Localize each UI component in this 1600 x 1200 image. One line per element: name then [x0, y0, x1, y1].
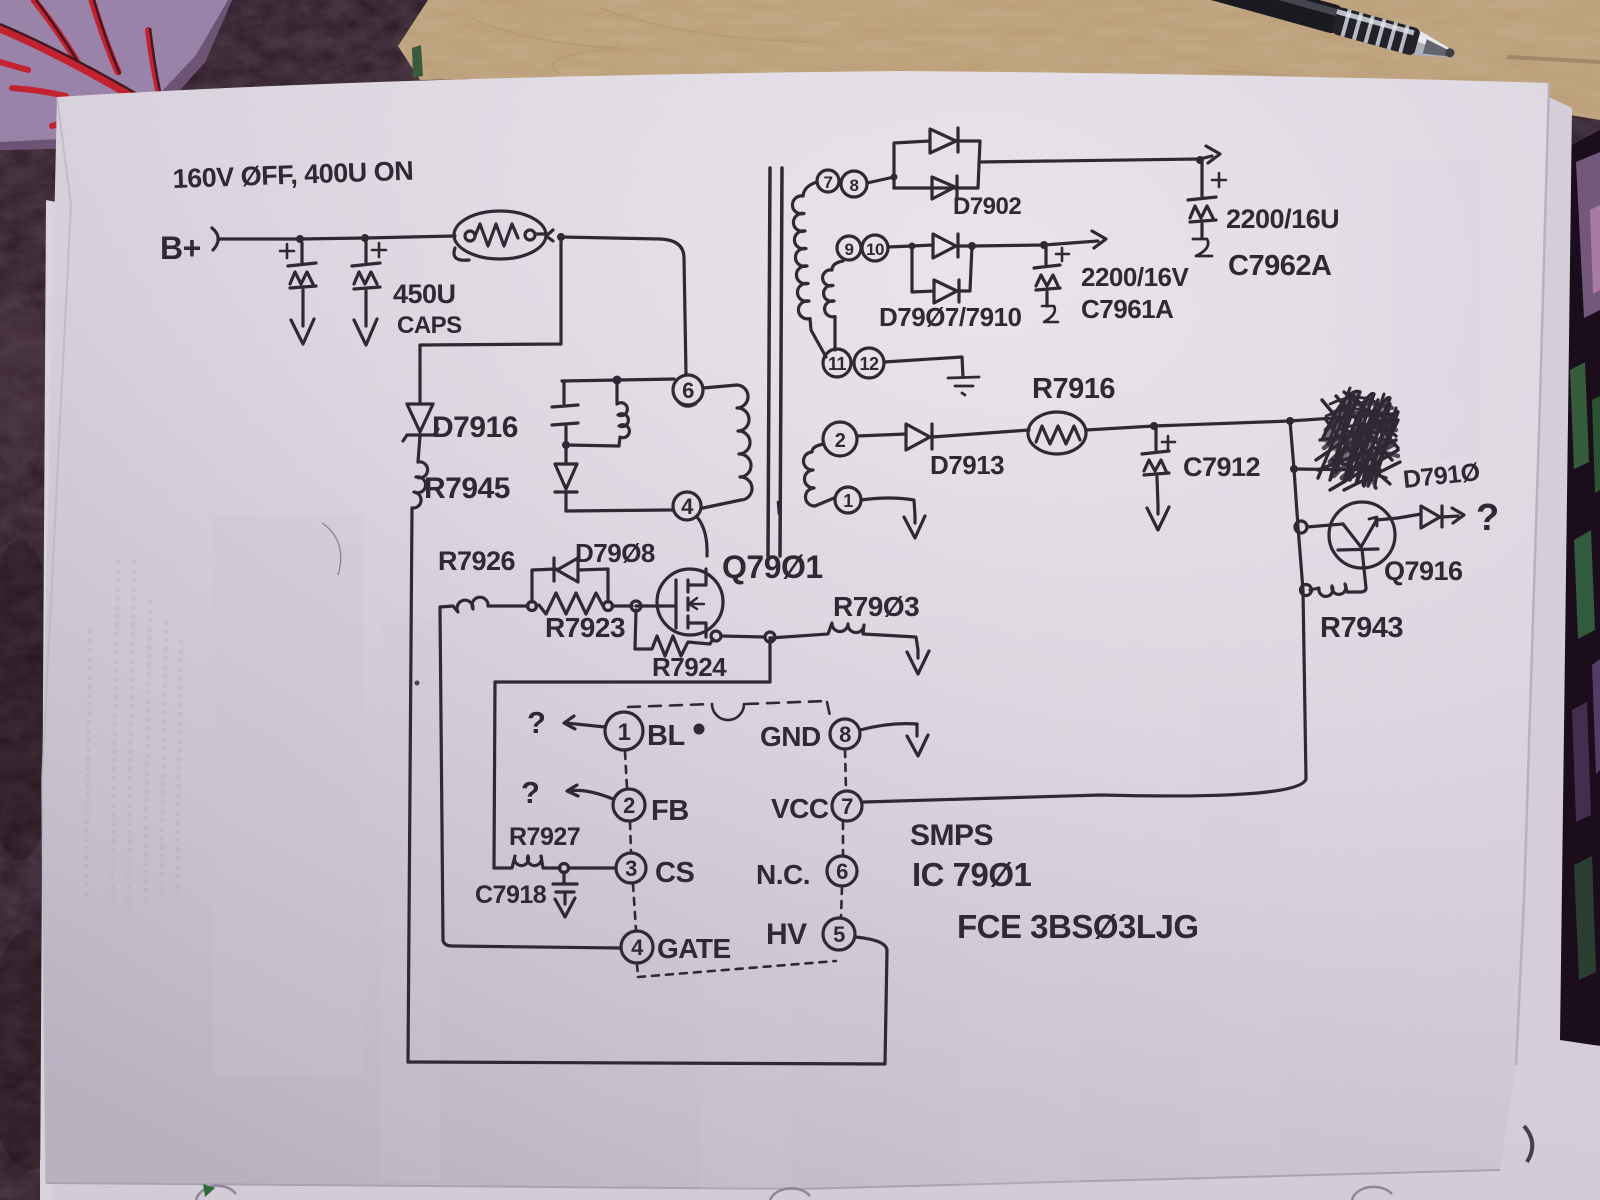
ground pin1 [904, 516, 925, 538]
arrow FB query [567, 785, 613, 799]
IC dashed pin links right [841, 750, 846, 917]
stray ink dot [415, 681, 420, 686]
primary winding [703, 385, 752, 508]
svg-text:FCE 3BSØ3LJG: FCE 3BSØ3LJG [957, 908, 1199, 945]
wire B+ rail [218, 236, 455, 239]
wire GND pin to ground [860, 724, 917, 730]
capacitor 450V cap2 [352, 242, 386, 345]
svg-text:VCC: VCC [771, 793, 829, 824]
wire scribble mid rail [1292, 469, 1390, 484]
svg-text:C7961A: C7961A [1081, 294, 1174, 324]
svg-text:1: 1 [618, 719, 631, 746]
wire pin1 to ground [861, 498, 915, 516]
svg-text:?: ? [521, 775, 539, 810]
IC notch [712, 704, 744, 720]
svg-text:C7912: C7912 [1183, 452, 1260, 482]
ground pins 11 12 [948, 377, 979, 395]
IC dashed outline top [628, 701, 830, 716]
wire to transformer pin6 [561, 237, 686, 374]
IC dot mark [694, 724, 705, 735]
wire D7907 output rail [972, 241, 1098, 246]
svg-text:R7916: R7916 [1032, 373, 1115, 405]
secondary winding lower [803, 444, 834, 506]
capacitor 450V cap1 [280, 243, 316, 344]
bottom edge marks of under-sheet [196, 1186, 1392, 1200]
junction gate (open) [631, 601, 641, 611]
svg-text:R7943: R7943 [1320, 612, 1403, 644]
junction snubber top [613, 376, 622, 385]
MOSFET Q7901 [657, 569, 723, 637]
junction snubber mid [562, 441, 570, 449]
IC pin 3 CS [616, 853, 646, 883]
background: right fabric pattern [1552, 130, 1600, 1045]
faint printed text show-through column [86, 560, 181, 912]
wire right bus vertical [1290, 421, 1306, 779]
svg-text:CS: CS [655, 857, 694, 889]
wire snubber top [562, 379, 674, 381]
svg-text:N.C.: N.C. [756, 859, 810, 890]
wire R7916 to C7912 junction [1086, 426, 1154, 430]
diode D7908 loop [532, 558, 608, 602]
svg-text:2200/16V: 2200/16V [1081, 262, 1189, 292]
node B+ input chevron [212, 228, 218, 250]
svg-text:SMPS: SMPS [910, 819, 993, 852]
ground R7903 [907, 650, 929, 674]
paper shading: left column show-through and streaks [213, 160, 1480, 1190]
scribble blob [1316, 388, 1400, 490]
IC dashed pin links left [625, 752, 836, 977]
svg-text:8: 8 [839, 722, 851, 747]
svg-text:D7902: D7902 [953, 193, 1021, 220]
wire gate drive loop [440, 608, 621, 948]
IC pin 7 VCC [832, 791, 862, 821]
junction D7907 bridge left [909, 243, 916, 250]
wire CS loop left vertical [494, 682, 495, 868]
secondary winding mid tap [823, 261, 843, 350]
resistor R7945 [412, 462, 428, 508]
svg-text:R7945: R7945 [424, 472, 510, 505]
IC pin 6 NC [827, 856, 857, 886]
capacitor snubber [552, 381, 578, 444]
inductor snubber [566, 380, 629, 446]
under-sheets (stack below main sheet) [1380, 92, 1600, 1200]
wire pin6 to primary winding [703, 385, 737, 388]
wire pin8 to D7902 bridge [867, 177, 894, 183]
junction source node (open) [711, 631, 721, 641]
svg-text:2: 2 [835, 430, 846, 452]
svg-text:R7924: R7924 [652, 652, 727, 682]
svg-text:450U: 450U [393, 279, 456, 309]
svg-text:10: 10 [866, 240, 884, 259]
capacitor C7918 [553, 872, 577, 917]
svg-text:8: 8 [850, 176, 859, 195]
IC pin 4 GATE [621, 931, 653, 963]
svg-text:4: 4 [631, 935, 644, 960]
IC pin 2 FB [613, 789, 645, 821]
transistor Q7916 [1295, 502, 1395, 592]
transformer pin 12 [854, 348, 884, 378]
transformer pin 11 [823, 349, 851, 377]
IC pin 5 HV [823, 918, 855, 950]
svg-text:FB: FB [651, 795, 689, 827]
wire CS loop top [495, 638, 770, 682]
rectifier D7902 (two diodes) [894, 128, 980, 199]
diode snubber [555, 445, 577, 511]
junction CS tap (open) [765, 632, 775, 642]
svg-text:IC 79Ø1: IC 79Ø1 [912, 856, 1032, 893]
wire into scribble top [1290, 414, 1392, 421]
secondary winding upper [792, 182, 826, 357]
resistor R7903 [770, 623, 918, 650]
svg-text:D7913: D7913 [930, 450, 1004, 480]
wire VCC long rail [864, 779, 1306, 802]
resistor R7923 [536, 593, 603, 614]
transformer pin 2 [823, 422, 857, 456]
hair on paper [322, 523, 341, 575]
svg-text:4: 4 [681, 494, 694, 519]
svg-text:D7916: D7916 [432, 411, 518, 444]
transformer pin 6 [673, 375, 703, 407]
svg-text:?: ? [1476, 497, 1499, 539]
ground GND pin [907, 724, 928, 756]
junction C7962A [1196, 156, 1204, 164]
cardboard strip top [398, 0, 1600, 120]
transformer core [768, 168, 782, 556]
wire B+ tap down to startup chain [420, 239, 561, 402]
junction C7961A [968, 242, 976, 250]
")" pen mark bottom right [1524, 1126, 1532, 1162]
svg-text:R7926: R7926 [438, 546, 516, 576]
wire snubber bottom to pin4 [566, 510, 673, 511]
arrow BL query [564, 716, 605, 729]
transformer pin 10 [862, 235, 888, 261]
svg-text:R7923: R7923 [545, 612, 625, 643]
svg-text:Q79Ø1: Q79Ø1 [722, 549, 823, 585]
svg-text:CAPS: CAPS [397, 312, 462, 339]
svg-text:B+: B+ [160, 230, 201, 266]
svg-text:C7962A: C7962A [1228, 250, 1332, 282]
green wedge mark bottom [203, 1184, 215, 1197]
diode D7910 [1376, 506, 1464, 528]
svg-text:7: 7 [841, 794, 853, 819]
wire HV loop [408, 937, 887, 1064]
green sliver left of cardboard [412, 45, 423, 78]
capacitor C7961A [1034, 247, 1069, 322]
svg-text:C7918: C7918 [475, 881, 547, 909]
background: lavender patch with red fern top-left [0, 0, 232, 150]
svg-text:HV: HV [766, 918, 807, 951]
junction scribble mid [1290, 465, 1298, 473]
wire pin4 to Q7901 drain [697, 517, 707, 556]
pen [1136, 0, 1458, 67]
diode D7913 [857, 424, 1029, 450]
svg-text:BL: BL [647, 720, 685, 752]
svg-text:7: 7 [824, 173, 833, 192]
svg-text:D79Ø7/7910: D79Ø7/7910 [879, 302, 1021, 332]
wire gate to R7923 [612, 604, 632, 607]
wire D7902 output rail [979, 156, 1212, 162]
svg-text:11: 11 [828, 354, 847, 374]
junction at second cap [361, 234, 369, 242]
svg-text:3: 3 [625, 856, 637, 881]
arrow D7907 output [1092, 231, 1106, 248]
svg-text:R7927: R7927 [509, 823, 580, 851]
background: dark mottling left strip [0, 540, 75, 1170]
junction C7912 [1150, 422, 1158, 430]
svg-text:GND: GND [760, 721, 821, 752]
arrow D7902 output [1206, 146, 1220, 163]
wire pin12 to ground [884, 357, 963, 377]
transformer pin 4 [673, 492, 701, 520]
junction at first cap [296, 235, 304, 243]
capacitor C7912 [1142, 428, 1175, 530]
svg-text:2200/16U: 2200/16U [1226, 204, 1339, 234]
junction after fusible resistor [557, 233, 565, 241]
junction C7918 [560, 864, 569, 873]
cardboard grain lines [470, 8, 1600, 96]
svg-text:9: 9 [845, 240, 854, 259]
svg-text:?: ? [527, 705, 545, 740]
junction R7923 right (open) [604, 602, 613, 611]
junction D7902 bridge left [891, 174, 898, 181]
IC pin 8 GND [830, 719, 860, 749]
svg-text:5: 5 [833, 922, 845, 947]
IC pin 1 BL [605, 712, 643, 750]
svg-text:1: 1 [843, 491, 853, 511]
resistor R7943 [1301, 584, 1361, 596]
wire junction to CS pin [569, 866, 616, 869]
svg-text:6: 6 [836, 859, 848, 884]
wire source to R7903 [721, 636, 765, 637]
resistor R7927 [494, 856, 560, 868]
rectifier D7907/7910 (two diodes) [912, 234, 972, 303]
transformer pin 1 [835, 487, 861, 513]
wire startup chain down left side (HV loop left) [408, 508, 412, 1062]
zener D7916 [403, 404, 438, 462]
svg-text:12: 12 [859, 354, 879, 374]
svg-text:D79Ø8: D79Ø8 [575, 538, 655, 568]
wire C7912 junction to scribble node [1154, 421, 1290, 426]
fusible resistor (circled) on B+ [454, 211, 553, 260]
junction at scribble [1286, 417, 1294, 425]
junction C7961A top [1040, 241, 1048, 249]
transformer pin 8 [841, 171, 867, 197]
wire pin10 to D7907 bridge [888, 246, 912, 247]
svg-text:R79Ø3: R79Ø3 [833, 591, 919, 622]
transformer pin 7 [817, 170, 839, 192]
svg-text:2: 2 [623, 793, 635, 818]
transformer pin 9 [837, 236, 861, 260]
fusible resistor R7916 (circled) [1028, 412, 1086, 454]
junction R7923 left (open) [528, 602, 537, 611]
capacitor C7962A [1188, 162, 1226, 256]
resistor R7926 [440, 597, 528, 612]
resistor R7924 loop [635, 610, 713, 656]
svg-text:Q7916: Q7916 [1384, 556, 1463, 586]
svg-text:GATE: GATE [657, 933, 731, 964]
wire gate lead [636, 604, 676, 607]
svg-text:6: 6 [682, 378, 694, 403]
